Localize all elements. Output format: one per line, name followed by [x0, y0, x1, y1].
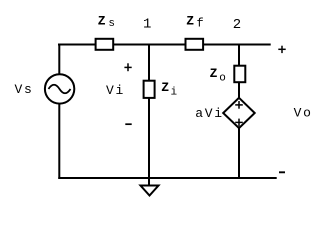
label Zo [210, 66, 226, 85]
svg-text:Vo: Vo [294, 106, 313, 121]
svg-text:o: o [219, 73, 226, 85]
ground symbol [141, 186, 159, 196]
polarity + for Vo [278, 46, 285, 53]
wire bottom horizontal return [58, 177, 276, 179]
svg-text:2: 2 [233, 17, 241, 33]
svg-text:aVi: aVi [195, 106, 224, 121]
svg-text:i: i [171, 87, 178, 99]
svg-text:Z: Z [186, 14, 194, 29]
label Zi [161, 80, 177, 99]
polarity - for Vi [125, 123, 131, 125]
voltage source Vs (AC source circle with sine) [45, 74, 74, 103]
wire node 2 vertical through Zo and aVi source to bottom wire [238, 45, 240, 179]
svg-text:s: s [108, 18, 115, 30]
resistor Zi (input impedance box) [144, 81, 155, 98]
wire left vertical from source circle down to bottom wire [58, 104, 60, 179]
svg-text:Z: Z [98, 14, 106, 29]
resistor Zs (series impedance box) [96, 39, 114, 50]
resistor Zo (output impedance box) [234, 66, 245, 83]
svg-text:Vs: Vs [15, 82, 34, 97]
wire top horizontal from source to output + [58, 44, 271, 46]
svg-text:1: 1 [143, 17, 151, 33]
label Zs [98, 14, 115, 31]
svg-text:Z: Z [210, 66, 218, 81]
wire left vertical from top wire down to source circle [58, 45, 60, 75]
svg-text:Vi: Vi [106, 83, 125, 98]
dependent source aVi (diamond) [223, 98, 255, 128]
resistor Zf (feedback impedance box) [186, 39, 204, 50]
svg-text:Z: Z [161, 80, 169, 95]
polarity - for Vo [279, 171, 285, 173]
polarity + for Vi [124, 63, 131, 71]
svg-text:f: f [197, 17, 204, 31]
label Zf [186, 14, 203, 31]
wire node 1 vertical through Zi to ground [148, 45, 150, 187]
